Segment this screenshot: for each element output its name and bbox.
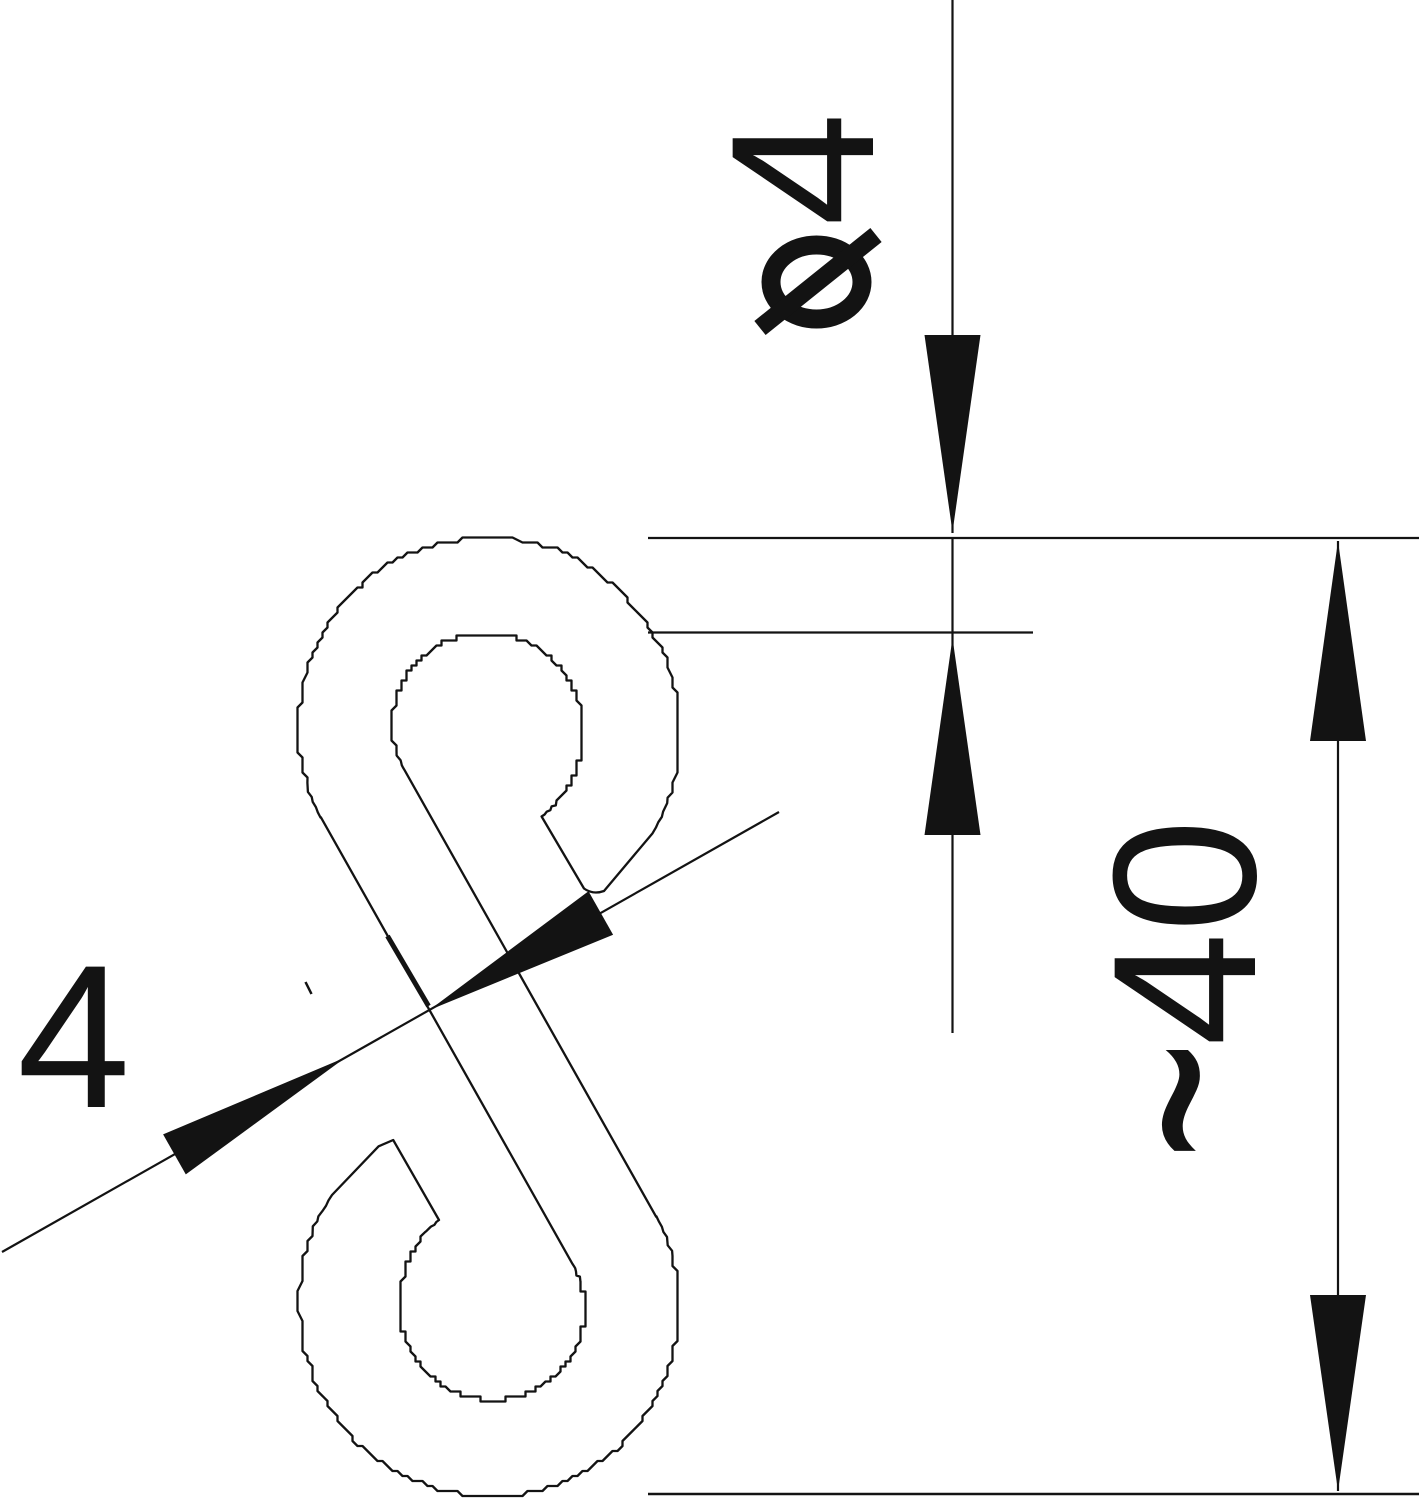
arrow up below (Ø4) (925, 638, 981, 835)
arrow lower on leader (dim 4) (163, 1057, 346, 1174)
svg-text:4: 4 (689, 113, 917, 226)
arrow upper on leader (dim 4) (429, 891, 613, 1010)
dim line vertical middle tail (951, 538, 953, 1033)
stray tick mark (306, 982, 312, 994)
svg-text:40: 40 (1071, 819, 1299, 1046)
svg-text:~: ~ (1007, 1041, 1348, 1160)
arrow down at top (Ø4) (925, 335, 981, 532)
extension line A (top of hook) (648, 537, 1419, 539)
S-hook wire profile outline (298, 538, 678, 1497)
extension line bottom (648, 1493, 1419, 1496)
extension overdraw on wire edge (388, 936, 429, 1006)
dim line vertical top (Ø4) (951, 0, 953, 533)
extension line B (inner top) (648, 631, 1033, 633)
leader line for dim 4 (2, 812, 779, 1252)
arrow down right (~40 bottom) (1310, 1295, 1366, 1491)
dim line vertical right (~40) (1337, 541, 1339, 1491)
label Ø4: diameter symbol ring (760, 235, 876, 328)
svg-text:4: 4 (17, 923, 130, 1151)
arrow up right (~40 top) (1310, 541, 1366, 741)
